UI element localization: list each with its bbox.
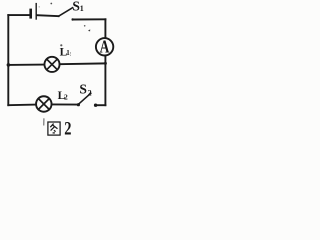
switch S2 blade xyxy=(78,93,90,104)
wire S2 to bottom-right corner xyxy=(96,104,106,106)
wire battery to switch S1 xyxy=(37,14,58,17)
label S1 xyxy=(72,0,83,13)
wire bottom-left to lamp L2 xyxy=(8,104,36,107)
svg-text:S: S xyxy=(79,81,87,96)
label S2 xyxy=(79,81,91,97)
svg-text:1: 1 xyxy=(66,49,70,57)
svg-text:2: 2 xyxy=(64,93,68,102)
switch S2 pivot node xyxy=(77,103,80,106)
battery B1 xyxy=(31,4,37,19)
svg-text:2: 2 xyxy=(88,88,92,97)
scan speck xyxy=(69,52,72,56)
lamp L1 xyxy=(44,57,59,72)
svg-text:S: S xyxy=(72,0,80,13)
svg-text:A: A xyxy=(100,38,110,57)
switch S1 blade xyxy=(59,8,73,17)
ammeter A1 xyxy=(96,38,113,55)
scan speck xyxy=(39,6,40,7)
node left junction xyxy=(7,63,11,67)
wire lamp L1 to right junction xyxy=(60,62,106,65)
scan speck xyxy=(84,25,86,27)
scan artifact below lamp L2 xyxy=(43,118,45,125)
label L1 xyxy=(60,44,71,58)
wire left vertical xyxy=(7,15,9,105)
wire right vertical mid xyxy=(104,56,106,63)
wire top-left segment xyxy=(8,14,30,16)
scan speck xyxy=(50,3,52,5)
wire right vertical lower xyxy=(104,63,106,105)
switch S1 fixed contact xyxy=(72,18,74,20)
node right junction xyxy=(104,62,107,65)
caption glyph 图 xyxy=(48,122,60,135)
wire S1 to top-right corner xyxy=(73,18,106,20)
svg-text:1: 1 xyxy=(80,4,84,13)
lamp L2 xyxy=(36,96,52,112)
switch S2 fixed contact node xyxy=(94,104,97,107)
wire right vertical upper xyxy=(104,19,106,37)
label L2 xyxy=(58,90,68,102)
wire middle-left to lamp L1 xyxy=(8,64,44,66)
scan speck xyxy=(88,29,90,31)
svg-text:2: 2 xyxy=(64,118,71,138)
wire lamp L2 to switch S2 xyxy=(52,103,77,105)
